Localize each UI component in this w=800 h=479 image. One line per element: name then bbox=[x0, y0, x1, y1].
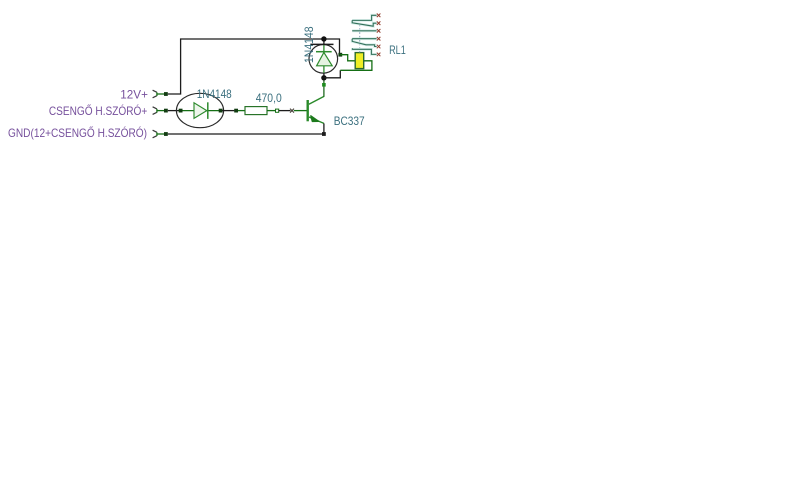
contact NC1 bbox=[352, 15, 376, 20]
wire top rail to relay coil bbox=[324, 39, 340, 55]
resistor R1 470,0 bbox=[245, 107, 267, 115]
wire D1 to R1 bbox=[223, 110, 235, 112]
wire R1 right stub bbox=[267, 110, 276, 112]
diode D1 1N4148 horizontal: ellipse bbox=[176, 93, 223, 127]
wire green stub row2 bbox=[157, 110, 164, 112]
D1 cathode bar bbox=[207, 102, 209, 119]
D1 triangle bbox=[194, 103, 207, 119]
contact NC2 bbox=[352, 38, 376, 40]
Q1 emitter diagonal bbox=[309, 117, 324, 123]
wire bottom dot to coil return bbox=[324, 70, 340, 78]
D2 inner vertical wire bbox=[323, 45, 325, 73]
Q1 collector pin square bbox=[322, 83, 326, 87]
svg-text:1N4148: 1N4148 bbox=[197, 89, 232, 101]
wire to base bbox=[279, 110, 291, 112]
wire row2 black to diode bbox=[168, 110, 181, 112]
wire GND row bbox=[168, 133, 324, 135]
relay contact group 2 bbox=[352, 39, 376, 55]
svg-text:BC337: BC337 bbox=[334, 116, 365, 128]
D1 pin squares bbox=[179, 109, 183, 113]
wire coil right bbox=[340, 61, 372, 71]
svg-text:RL1: RL1 bbox=[389, 45, 406, 57]
relay mechanical dashed link bbox=[359, 25, 361, 53]
D2 circle bbox=[309, 45, 338, 74]
junction square at coil feed bbox=[338, 53, 342, 57]
junction square row1 bbox=[164, 92, 168, 96]
D2 triangle bbox=[317, 52, 333, 65]
D2 bottom junction dot bbox=[321, 75, 326, 80]
junction square before R1 bbox=[234, 109, 238, 113]
pin open square bbox=[276, 109, 279, 112]
relay RL1 coil bbox=[355, 53, 364, 69]
Q1 emitter arrow bbox=[311, 116, 319, 122]
wire to R1 bbox=[238, 110, 245, 112]
junction square row3 bbox=[164, 132, 168, 136]
junction square GND/emitter bbox=[322, 132, 326, 136]
Q1 emitter wire down bbox=[323, 123, 325, 134]
connector pin CSENGŐ H.SZÓRÓ+ bbox=[153, 107, 157, 115]
Q1 collector vertical bbox=[323, 80, 325, 96]
armature arm 2 bbox=[352, 39, 376, 47]
svg-text:CSENGŐ H.SZÓRÓ+: CSENGŐ H.SZÓRÓ+ bbox=[49, 103, 147, 118]
wire coil left bbox=[340, 55, 355, 61]
diode D2 1N4148 vertical: wire stubs bbox=[323, 39, 325, 45]
junction square row2 bbox=[164, 109, 168, 113]
svg-text:12V+: 12V+ bbox=[120, 88, 148, 102]
wire through D1 bbox=[181, 110, 221, 112]
relay contact group 1 bbox=[352, 15, 376, 30]
Q1 collector diagonal bbox=[309, 96, 324, 104]
connector pin 12V+ bbox=[153, 90, 157, 98]
relay pin crosses bbox=[377, 14, 381, 57]
armature arm 1 bbox=[352, 20, 376, 26]
contact NO1 bbox=[352, 30, 376, 32]
relay contact halo bbox=[352, 15, 376, 54]
wire green stub row1 bbox=[157, 93, 164, 95]
pin cross at base bbox=[290, 109, 294, 113]
wire cross to base bar bbox=[294, 110, 307, 112]
D2 black top bar bbox=[310, 43, 333, 45]
svg-text:GND(12+CSENGŐ H.SZÓRÓ): GND(12+CSENGŐ H.SZÓRÓ) bbox=[8, 125, 147, 140]
svg-text:470,0: 470,0 bbox=[256, 93, 282, 105]
D2 top junction dot bbox=[321, 36, 326, 41]
transistor Q1 BC337 base bar bbox=[307, 100, 309, 121]
svg-text:1N4148: 1N4148 bbox=[304, 27, 316, 64]
D2 cathode bar bbox=[316, 51, 332, 53]
connector pin GND bbox=[153, 130, 157, 138]
wire green stub row3 bbox=[157, 133, 164, 135]
contact NO2 bbox=[352, 48, 376, 54]
wire 12V+ to corner bbox=[168, 39, 324, 94]
